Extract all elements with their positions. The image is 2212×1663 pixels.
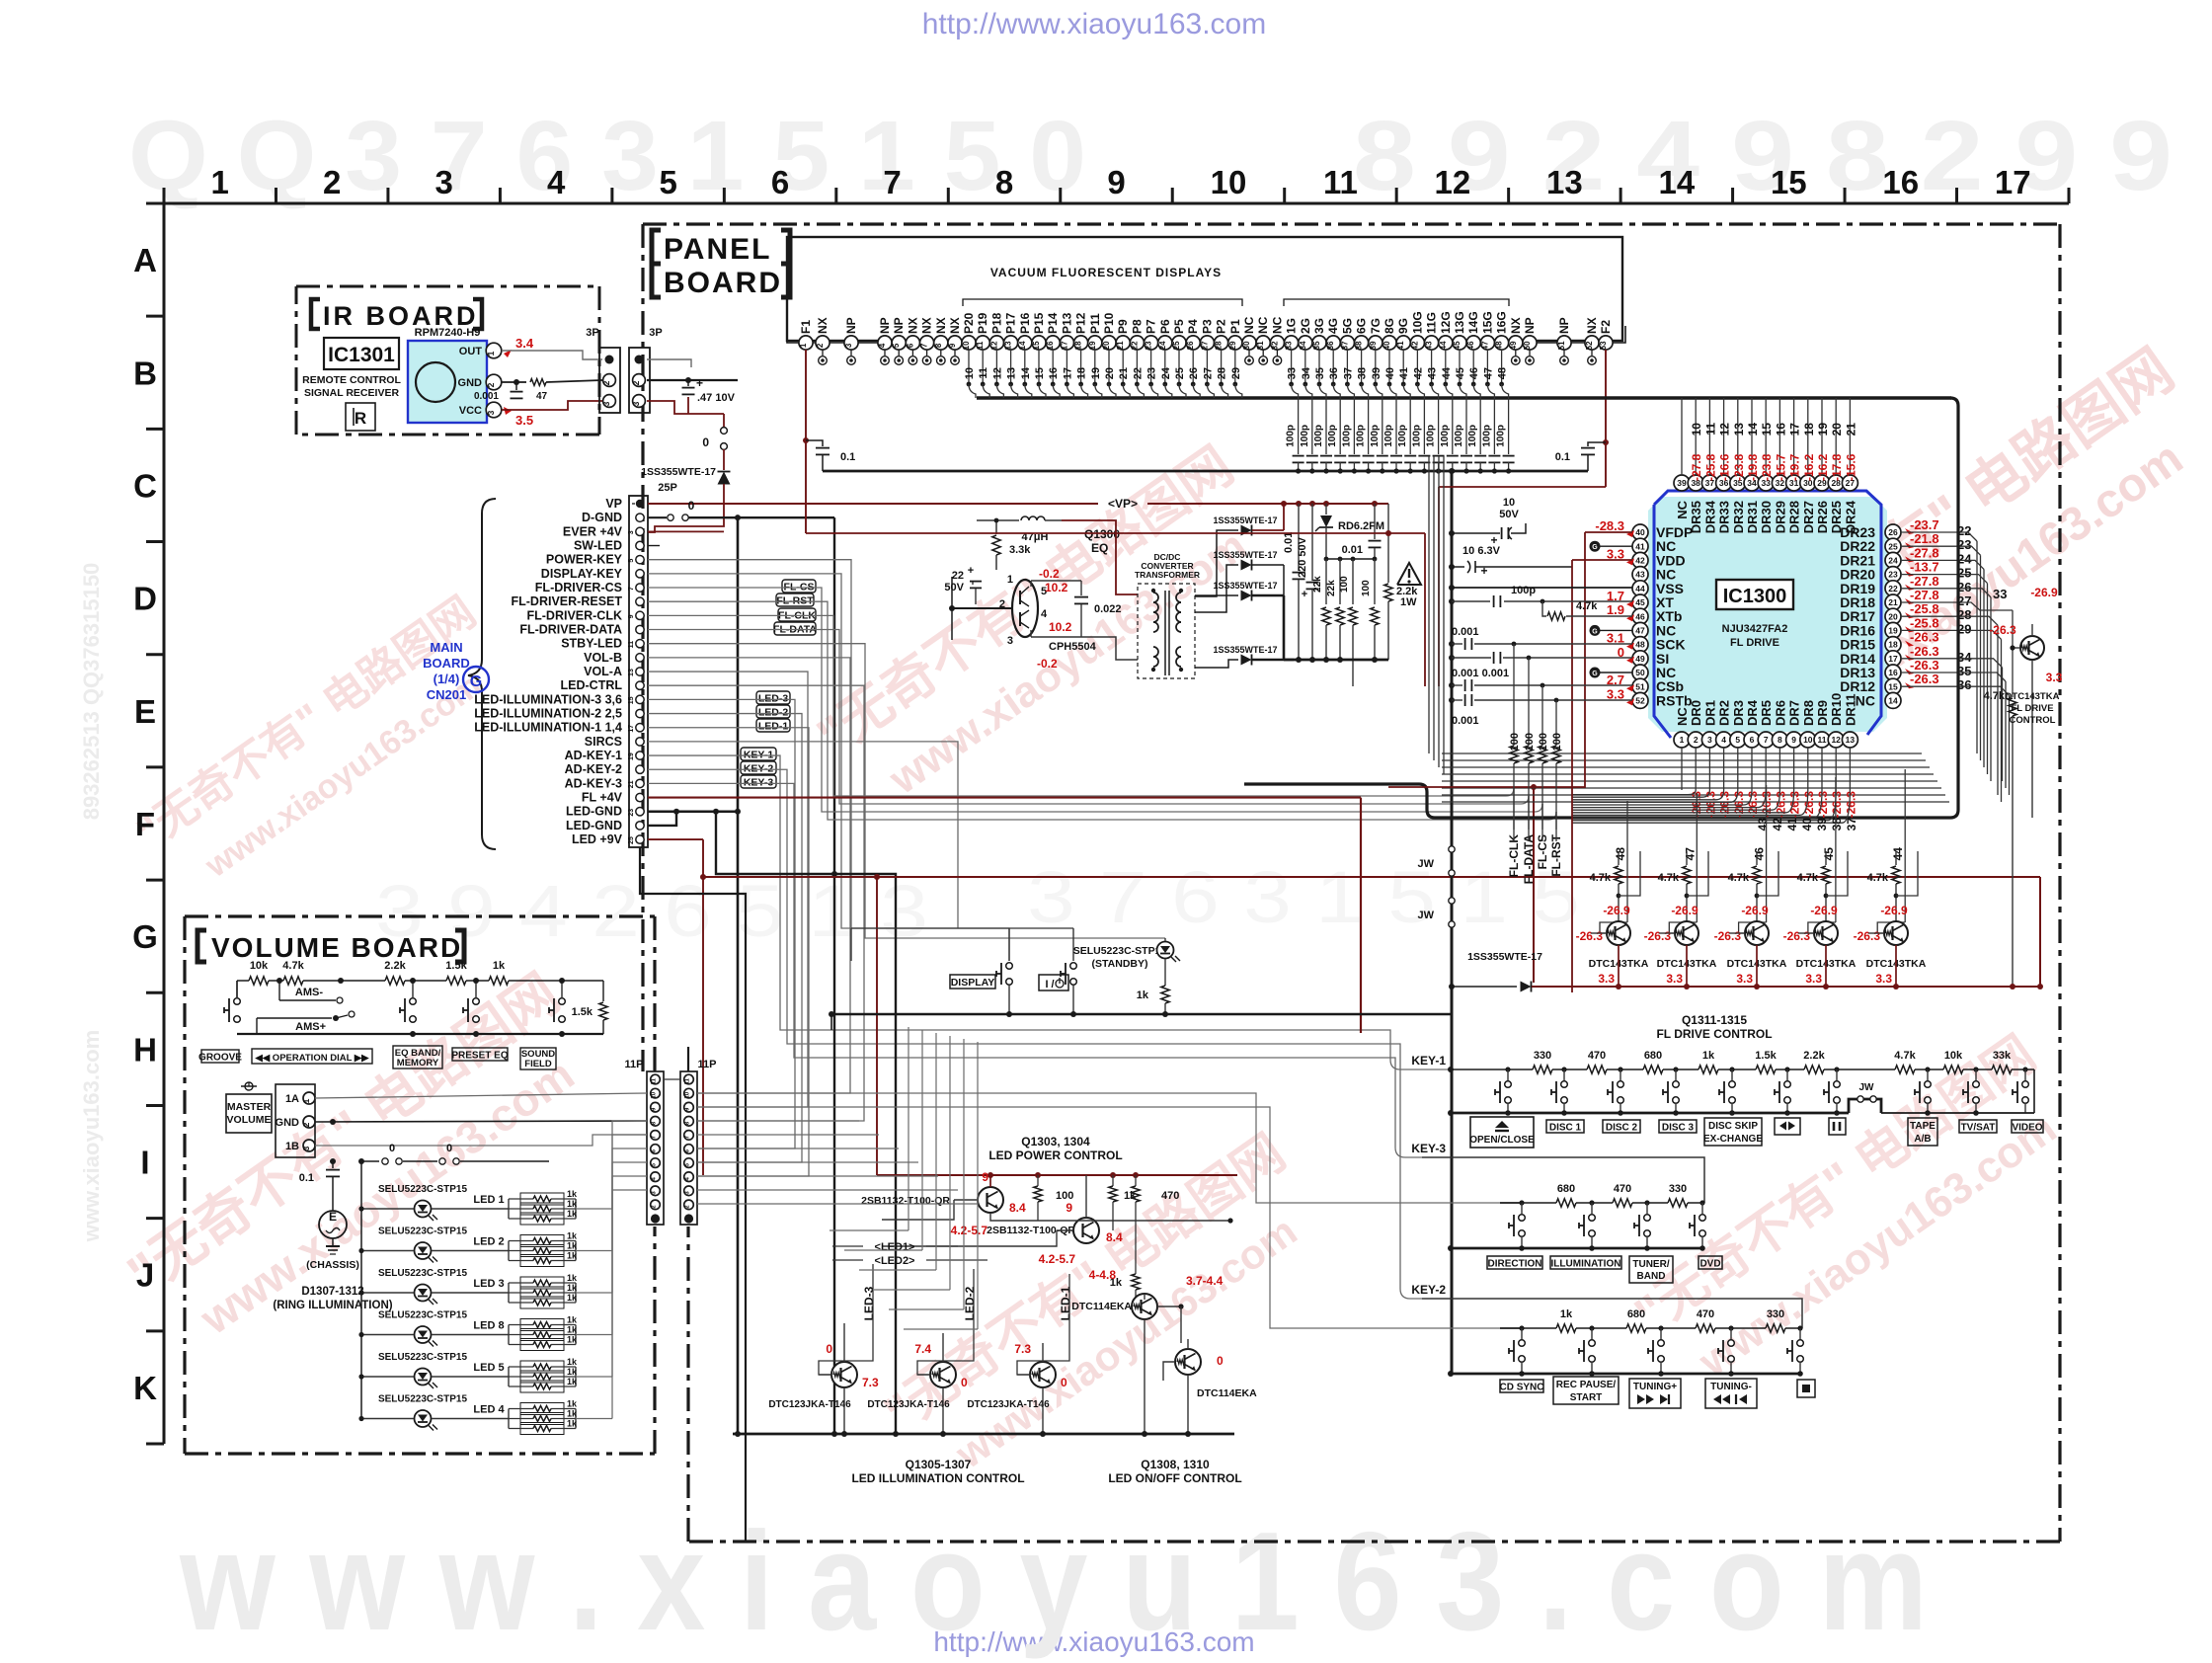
svg-text:15: 15 [1032, 341, 1041, 350]
svg-text:P15: P15 [1032, 312, 1046, 334]
wire led outputs to 11P [612, 1190, 647, 1209]
svg-text:NP: NP [1557, 317, 1571, 334]
wire Q1300 collector to transformer [1062, 520, 1138, 594]
switch GROOVE [234, 998, 241, 1005]
svg-text:P11: P11 [1088, 313, 1102, 334]
svg-text:FL-DATA: FL-DATA [1522, 834, 1536, 885]
svg-text:100p: 100p [1300, 425, 1310, 447]
wire 3P GND into panel (D-GND trunk) [647, 379, 738, 381]
svg-text:SW-LED: SW-LED [574, 539, 622, 553]
svg-text:P17: P17 [1004, 312, 1018, 334]
svg-text:12: 12 [991, 367, 1003, 379]
svg-text:8: 8 [934, 343, 943, 348]
svg-text:3.3: 3.3 [2046, 671, 2063, 684]
svg-text:1k: 1k [567, 1315, 578, 1325]
svg-text:G: G [1592, 544, 1598, 551]
IR BOARD outline [296, 286, 599, 435]
wire AD-KEY-2 [648, 769, 1400, 1289]
svg-text:15: 15 [1771, 164, 1807, 200]
wire output bus to maroon rail [806, 532, 1425, 534]
svg-text:11: 11 [652, 1077, 658, 1084]
svg-text:220 50V: 220 50V [1297, 536, 1308, 578]
svg-text:0.01: 0.01 [1283, 532, 1295, 553]
wire LED-GND route down [716, 812, 896, 1434]
svg-text:(RING ILLUMINATION): (RING ILLUMINATION) [273, 1300, 392, 1311]
svg-text:-16.2: -16.2 [1816, 453, 1830, 481]
svg-text:41: 41 [1635, 541, 1645, 551]
wire IC1301 GND to 3P [502, 381, 526, 383]
svg-text:DR24: DR24 [1843, 500, 1857, 533]
wire ground bus bottom [733, 1433, 1234, 1436]
svg-text:VOL-A: VOL-A [584, 665, 622, 678]
svg-text:470: 470 [1614, 1183, 1631, 1195]
svg-text:16: 16 [1882, 164, 1919, 200]
svg-text:17: 17 [628, 725, 635, 733]
svg-text:18: 18 [1802, 423, 1816, 436]
svg-text:EX-CHANGE: EX-CHANGE [1703, 1134, 1763, 1145]
svg-text:IC1300: IC1300 [1723, 586, 1787, 607]
svg-text:JW: JW [1859, 1082, 1875, 1093]
svg-text:4.7k: 4.7k [1590, 872, 1612, 884]
svg-text:45: 45 [1635, 597, 1645, 607]
svg-text:1k: 1k [567, 1419, 578, 1429]
svg-text:DR7: DR7 [1787, 700, 1802, 726]
wire STBY-LED [648, 644, 1165, 938]
net label FL-CS [782, 580, 816, 593]
svg-text:48: 48 [1495, 341, 1504, 350]
svg-text:100p: 100p [1341, 425, 1352, 447]
svg-text:100p: 100p [1370, 425, 1381, 447]
capacitor .47 10V [687, 380, 689, 386]
jumper JW key row [1849, 1099, 1881, 1113]
connector 3P (IR side) [599, 348, 620, 413]
svg-text:6: 6 [771, 164, 789, 200]
svg-text:DR4: DR4 [1745, 699, 1760, 726]
svg-text:42: 42 [1771, 818, 1784, 831]
ruler left line [163, 203, 166, 1444]
svg-text:41: 41 [1398, 367, 1410, 379]
wire GND master volume [315, 1121, 647, 1122]
svg-text:7G: 7G [1369, 318, 1382, 334]
svg-text:23: 23 [1145, 341, 1153, 350]
svg-text:DVD: DVD [1699, 1259, 1720, 1270]
svg-text:AMS-: AMS- [295, 987, 323, 998]
svg-text:-26.3: -26.3 [1844, 791, 1857, 819]
svg-text:SELU5223C-STP15: SELU5223C-STP15 [1073, 945, 1167, 957]
svg-text:F: F [135, 806, 155, 842]
svg-text:37: 37 [1340, 341, 1349, 350]
wire 11P B fanout right [697, 1092, 820, 1094]
IC1300 blue outline [1654, 491, 1881, 738]
svg-text:-27.8: -27.8 [1910, 588, 1939, 602]
svg-text:-23.8: -23.8 [1732, 453, 1746, 481]
svg-text:1k: 1k [567, 1335, 578, 1345]
svg-text:20: 20 [1102, 341, 1111, 350]
svg-text:11: 11 [628, 641, 635, 649]
svg-text:LED 8: LED 8 [473, 1320, 504, 1332]
svg-text:3: 3 [486, 410, 496, 415]
svg-text:NC: NC [1675, 707, 1690, 726]
svg-text:KEY-1: KEY-1 [1411, 1054, 1446, 1068]
svg-text:4: 4 [547, 164, 566, 200]
label OPERATION DIAL [252, 1049, 372, 1064]
svg-text:100p: 100p [1481, 425, 1492, 447]
svg-text:21: 21 [1118, 367, 1130, 379]
svg-text:17: 17 [1788, 423, 1802, 436]
svg-text:19: 19 [628, 752, 635, 760]
svg-text:DR9: DR9 [1815, 700, 1830, 726]
svg-text:-27.8: -27.8 [1690, 453, 1703, 481]
svg-text:DR25: DR25 [1829, 501, 1844, 533]
svg-text:37: 37 [1845, 818, 1858, 831]
svg-text:PRESET EQ: PRESET EQ [451, 1051, 508, 1062]
svg-text:CN201: CN201 [427, 687, 466, 702]
svg-text:FL-DRIVER-CLK: FL-DRIVER-CLK [526, 608, 622, 622]
svg-text:39: 39 [1677, 478, 1687, 488]
PANEL BOARD outline [643, 224, 2060, 1542]
IC1300 designator box [1716, 580, 1793, 609]
svg-text:44: 44 [1635, 584, 1645, 594]
diode 1SS355WTE-17 (panel supply) [723, 449, 725, 470]
label DISC 3 [1659, 1120, 1697, 1133]
svg-text:6G: 6G [1355, 318, 1369, 334]
svg-text:41: 41 [1785, 818, 1799, 831]
svg-text:DR2: DR2 [1717, 700, 1732, 726]
svg-text:P18: P18 [989, 312, 1003, 334]
svg-text:1k: 1k [567, 1273, 578, 1283]
svg-text:POWER-KEY: POWER-KEY [546, 553, 623, 567]
transistors Q1305-1307 DTC123JKA-T146 [768, 1323, 879, 1437]
svg-text:1k: 1k [567, 1367, 578, 1377]
svg-text:22: 22 [1132, 367, 1144, 379]
svg-text:4.7k: 4.7k [1867, 872, 1889, 884]
wire thick anode loop [1244, 398, 1958, 818]
svg-text:100: 100 [1056, 1190, 1073, 1202]
svg-text:REMOTE CONTROL: REMOTE CONTROL [302, 374, 401, 386]
svg-text:4: 4 [878, 343, 887, 348]
wire maroon filament secondaries [1438, 487, 1440, 686]
svg-text:1k: 1k [567, 1325, 578, 1335]
svg-text:<VP>: <VP> [1108, 497, 1138, 511]
IC1300 left pins [1632, 524, 1693, 708]
svg-text:3P: 3P [586, 327, 598, 339]
svg-text:17: 17 [1888, 654, 1898, 664]
IC1300 top pins [1674, 475, 1857, 533]
svg-text:-26.3: -26.3 [1830, 791, 1844, 819]
svg-text:46: 46 [1753, 847, 1767, 861]
svg-text:45: 45 [1822, 847, 1836, 861]
IC1301 RPM7240-H9 body [408, 341, 487, 423]
svg-text:3.3: 3.3 [1666, 972, 1683, 986]
svg-text:9: 9 [1066, 1201, 1072, 1215]
svg-text:-26.3: -26.3 [1989, 623, 2016, 637]
svg-text:470: 470 [1697, 1308, 1714, 1320]
svg-text:-26.3: -26.3 [1576, 929, 1604, 943]
svg-text:10k: 10k [1944, 1050, 1963, 1062]
svg-text:G: G [1592, 628, 1598, 635]
svg-text:GND: GND [458, 377, 483, 389]
capacitor 0.001 SCK [1449, 641, 1455, 647]
svg-text:VOLUME: VOLUME [227, 1114, 272, 1126]
svg-text:LED-2: LED-2 [758, 707, 788, 719]
svg-text:DR34: DR34 [1702, 500, 1717, 533]
svg-text:4: 4 [1041, 608, 1048, 620]
svg-text:1SS355WTE-17: 1SS355WTE-17 [641, 466, 716, 478]
wire anode bus thick [977, 396, 1951, 399]
svg-text:NJU3427FA2: NJU3427FA2 [1722, 623, 1788, 635]
svg-text:-19.7: -19.7 [1788, 453, 1802, 481]
svg-text:1W: 1W [1400, 596, 1417, 608]
VFD pin name brackets [963, 299, 1242, 306]
wire LED-ILLUMINATION-2 [648, 714, 802, 1162]
svg-text:100p: 100p [1496, 425, 1507, 447]
svg-text:1: 1 [1680, 735, 1685, 745]
svg-text:SELU5223C-STP15: SELU5223C-STP15 [378, 1352, 467, 1363]
wire rectified output bus [1284, 659, 1388, 662]
svg-text:11: 11 [1703, 423, 1717, 436]
wire 1A to 11P [315, 1093, 513, 1098]
capacitor 0.022 [1030, 581, 1032, 587]
svg-text:0.1: 0.1 [299, 1172, 314, 1184]
wire standby bus [831, 1013, 1451, 1016]
wire VOL-B [648, 658, 850, 1093]
svg-text:1k: 1k [567, 1293, 578, 1303]
svg-text:13: 13 [628, 669, 635, 676]
svg-text:1B: 1B [285, 1141, 299, 1152]
svg-text:14: 14 [1018, 341, 1027, 350]
svg-text:RPM7240-H9: RPM7240-H9 [415, 327, 481, 339]
svg-text:.47 10V: .47 10V [697, 392, 736, 404]
KEY-2 bottom bus [1451, 1373, 1800, 1376]
svg-text:15: 15 [628, 696, 635, 704]
svg-text:KEY-2: KEY-2 [1411, 1283, 1446, 1297]
net label KEY-2 [741, 761, 776, 774]
wire AD-KEY-1 [648, 755, 1390, 1060]
svg-text:24: 24 [1888, 555, 1898, 565]
svg-text:-27.8: -27.8 [1910, 574, 1939, 589]
svg-text:2: 2 [816, 343, 825, 348]
resistor 22k (b) [1339, 559, 1341, 604]
svg-text:29: 29 [1230, 367, 1242, 379]
VFD pins row [799, 311, 1613, 350]
svg-text:2.2k: 2.2k [1803, 1050, 1825, 1062]
svg-text:DTC123JKA-T146: DTC123JKA-T146 [867, 1399, 950, 1410]
svg-text:NX: NX [816, 317, 829, 334]
svg-text:DTC114EKA: DTC114EKA [1071, 1301, 1132, 1312]
svg-text:-26.3: -26.3 [1910, 630, 1939, 645]
svg-text:1: 1 [211, 164, 229, 200]
svg-text:330: 330 [1534, 1050, 1551, 1062]
wire rectifier nodes [1283, 504, 1285, 530]
svg-text:19: 19 [1088, 341, 1097, 350]
wire AMS branch [278, 981, 280, 1000]
svg-text:38: 38 [1355, 341, 1364, 350]
svg-text:13: 13 [1004, 341, 1013, 350]
svg-text:-25.8: -25.8 [1703, 453, 1717, 481]
svg-text:33: 33 [1285, 341, 1294, 350]
wire POWER-KEY [648, 560, 851, 961]
resistor 100 (b) [1374, 559, 1376, 604]
svg-text:1k: 1k [1137, 990, 1149, 1001]
svg-text:48: 48 [1497, 367, 1509, 379]
inductor 47uH [977, 519, 1019, 521]
svg-text:5G: 5G [1340, 318, 1354, 334]
wire maroon VFDP line [1585, 531, 1632, 533]
resistors 100 on FL lines [1507, 644, 1563, 884]
watermark pink right upper [1699, 337, 2212, 764]
jumper JW vertical pair [1451, 841, 1453, 1014]
svg-text:J: J [136, 1257, 154, 1294]
IC1300 left pin red voltages [1595, 518, 1634, 705]
svg-text:22: 22 [952, 570, 964, 582]
svg-text:39: 39 [1371, 367, 1382, 379]
ruler top line [164, 202, 2069, 205]
svg-text:1SS355WTE-17: 1SS355WTE-17 [1213, 550, 1277, 560]
svg-text:1A: 1A [285, 1093, 299, 1105]
svg-text:100p: 100p [1426, 425, 1437, 447]
svg-text:NP: NP [878, 317, 892, 334]
svg-text:(STANDBY): (STANDBY) [1092, 958, 1148, 970]
svg-text:G: G [1592, 671, 1598, 677]
svg-text:-23.7: -23.7 [1910, 517, 1939, 532]
svg-text:7: 7 [920, 343, 929, 348]
svg-text:1k: 1k [567, 1241, 578, 1251]
svg-text:DR29: DR29 [1773, 501, 1787, 533]
IC1300 right pin red voltages and wire numbers [1905, 517, 1972, 692]
wire VOL-A [648, 672, 808, 1107]
svg-text:-26.9: -26.9 [1741, 904, 1769, 917]
svg-text:39: 39 [1369, 341, 1378, 350]
ruler ticks and numbers [164, 164, 2069, 203]
svg-text:893262513 QQ376315150: 893262513 QQ376315150 [79, 563, 104, 821]
svg-text:1k: 1k [1702, 1050, 1715, 1062]
svg-text:-26.3: -26.3 [1746, 791, 1760, 819]
label TUNING- [1705, 1379, 1757, 1408]
svg-text:PANEL: PANEL [664, 233, 771, 266]
wire led column drops [819, 1264, 873, 1375]
svg-text:<LED1>: <LED1> [875, 1241, 915, 1253]
net label FL-RST [776, 594, 814, 606]
svg-text:53: 53 [1599, 341, 1608, 350]
svg-text:TUNING+: TUNING+ [1633, 1382, 1677, 1392]
svg-text:100p: 100p [1383, 425, 1394, 447]
svg-text:2: 2 [486, 382, 496, 387]
svg-text:FL-DRIVER-RESET: FL-DRIVER-RESET [512, 594, 623, 608]
KEY-1 row rail [1451, 1069, 1515, 1070]
svg-text:TAPE: TAPE [1910, 1121, 1935, 1132]
label DISC SKIP EX-CHANGE [1704, 1118, 1762, 1146]
svg-text:22k: 22k [1326, 580, 1337, 596]
svg-text:2: 2 [631, 380, 641, 385]
svg-text:0.1: 0.1 [1555, 451, 1570, 463]
svg-text:-26.3: -26.3 [1774, 791, 1787, 819]
svg-text:1.5k: 1.5k [445, 960, 467, 972]
svg-text:1G: 1G [1285, 318, 1299, 334]
svg-text:1SS355WTE-17: 1SS355WTE-17 [1213, 581, 1277, 591]
svg-text:NX: NX [948, 317, 962, 334]
svg-text:SELU5223C-STP15: SELU5223C-STP15 [378, 1227, 467, 1237]
svg-text:AD-KEY-3: AD-KEY-3 [565, 776, 622, 790]
svg-text:3.3: 3.3 [1598, 972, 1615, 986]
svg-text:JW: JW [1418, 910, 1435, 921]
svg-text:EQ: EQ [1091, 541, 1108, 555]
label GROOVE [201, 1050, 239, 1063]
svg-text:-13.7: -13.7 [1910, 560, 1939, 575]
svg-text:1k: 1k [567, 1209, 578, 1219]
svg-text:2SB1132-T100-QR: 2SB1132-T100-QR [861, 1195, 950, 1207]
capacitor 220 50V [1311, 504, 1313, 581]
KEY-3 bottom bus [1451, 1247, 1702, 1250]
svg-text:4.7k: 4.7k [282, 960, 304, 972]
svg-text:1k: 1k [567, 1357, 578, 1367]
wire SW-LED stub [648, 545, 660, 547]
svg-text:2: 2 [601, 380, 611, 385]
svg-text:NX: NX [920, 317, 934, 334]
svg-text:3.3: 3.3 [1875, 972, 1892, 986]
svg-text:w w w . x i a o y u 1 6 3 . c: w w w . x i a o y u 1 6 3 . c o m [179, 1503, 1928, 1660]
svg-text:21: 21 [1116, 341, 1125, 350]
svg-text:8: 8 [1777, 735, 1782, 745]
svg-text:45: 45 [1455, 367, 1466, 379]
svg-text:LED +9V: LED +9V [572, 832, 623, 846]
watermark pink center [807, 436, 1284, 823]
svg-text:47: 47 [1683, 847, 1697, 861]
svg-text:14G: 14G [1466, 311, 1480, 334]
capacitor 0.001 RSTb [1449, 697, 1455, 703]
svg-text:3.3: 3.3 [1607, 686, 1624, 701]
svg-text:5: 5 [628, 559, 635, 563]
svg-text:DR11: DR11 [1843, 693, 1857, 726]
svg-text:VP: VP [605, 497, 622, 511]
svg-text:NP: NP [1523, 317, 1537, 334]
svg-text:17: 17 [1062, 367, 1073, 379]
svg-text:NX: NX [906, 317, 919, 334]
svg-text:7.3: 7.3 [1014, 1342, 1031, 1356]
svg-text:13: 13 [1846, 735, 1856, 745]
capacitor 0.1 right [1588, 442, 1606, 446]
svg-text:28: 28 [1217, 367, 1228, 379]
resistor 1.5k vertical [602, 981, 604, 1001]
svg-text:3P: 3P [649, 327, 662, 339]
watermark pink left upper [128, 588, 518, 906]
svg-text:470: 470 [1161, 1190, 1179, 1202]
svg-text:26: 26 [1888, 527, 1898, 537]
svg-text:VIDEO: VIDEO [2012, 1123, 2042, 1134]
svg-text:DR30: DR30 [1759, 501, 1774, 533]
master volume connector [276, 1084, 315, 1157]
svg-text:◀◀ OPERATION DIAL ▶▶: ◀◀ OPERATION DIAL ▶▶ [255, 1053, 371, 1064]
svg-text:LED-GND: LED-GND [566, 805, 622, 819]
wire 33 to FL drive control [1901, 602, 2013, 610]
svg-text:-26.9: -26.9 [1880, 904, 1908, 917]
svg-text:SIRCS: SIRCS [585, 735, 622, 749]
svg-text:P7: P7 [1145, 319, 1158, 334]
wire D-GND trunk down [737, 517, 740, 1434]
svg-text:25: 25 [1172, 341, 1181, 350]
svg-text:38: 38 [1830, 818, 1844, 831]
jumper 0 ohm [723, 414, 725, 427]
label TUNING+ [1629, 1379, 1681, 1408]
svg-text:1: 1 [799, 343, 808, 348]
svg-text:25: 25 [628, 836, 635, 844]
svg-text:48: 48 [1614, 847, 1627, 861]
svg-text:Q1311-1315: Q1311-1315 [1682, 1013, 1747, 1027]
svg-text:15: 15 [1760, 423, 1774, 436]
svg-text:14: 14 [1658, 164, 1695, 200]
label SOUND FIELD [520, 1048, 556, 1069]
svg-text:DR32: DR32 [1731, 501, 1746, 533]
svg-text:35: 35 [1312, 341, 1321, 350]
